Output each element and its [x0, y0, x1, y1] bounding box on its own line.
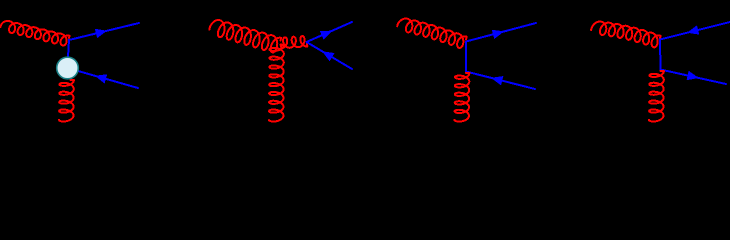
diagram 1 internal quark segment to blob: [68, 40, 69, 57]
diagram 1 antiquark line: [68, 68, 139, 88]
diagram 3 quark arrow: [492, 30, 504, 39]
diagram 2 radiated gluon downward: [269, 45, 284, 122]
diagram 1 antiquark arrow: [95, 74, 107, 83]
diagram 3 internal quark propagator: [465, 42, 467, 72]
diagram 4 internal quark propagator: [659, 40, 662, 70]
diagram 2 quark arrow: [320, 31, 332, 40]
diagram 1 outgoing quark line: [69, 23, 139, 40]
diagram 4 lower arrow outgoing: [687, 71, 699, 80]
diagram 2 internal gluon propagator: [281, 36, 307, 48]
diagram 1 quark arrow: [95, 29, 107, 38]
diagram 4 upper arrow toward vertex: [687, 25, 699, 34]
diagram 4 radiated gluon downward: [649, 71, 664, 122]
diagram 2 incoming gluon: [209, 20, 281, 53]
diagram 3 incoming gluon: [397, 19, 467, 48]
diagram 3 radiated gluon downward: [455, 73, 470, 122]
diagram 2 outgoing antiquark line: [307, 42, 353, 69]
diagram 3 outgoing quark line: [466, 23, 536, 42]
diagram 3 antiquark line: [466, 72, 535, 90]
diagram 1 radiated gluon below blob: [59, 80, 74, 121]
diagram 3 antiquark arrow: [491, 76, 503, 85]
diagram 4 outgoing quark line lower: [661, 70, 727, 85]
diagram 4 antiquark line upper: [660, 22, 730, 40]
diagram 2 outgoing quark line: [307, 22, 353, 42]
diagram 2 antiquark arrow: [322, 51, 334, 61]
diagram 1 effective vertex blob: [57, 57, 79, 79]
diagram 1 incoming gluon: [0, 21, 69, 46]
diagram 4 incoming gluon: [591, 22, 660, 48]
